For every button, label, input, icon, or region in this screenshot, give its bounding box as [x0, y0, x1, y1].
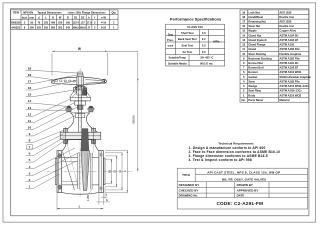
- svg-text:ASTM A216 WCB: ASTM A216 WCB: [279, 93, 301, 97]
- svg-text:19: 19: [242, 10, 245, 14]
- svg-text:190: 190: [66, 22, 71, 25]
- svg-text:4: 4: [29, 165, 31, 169]
- svg-text:10: 10: [242, 52, 245, 56]
- svg-text:TITLE: TITLE: [182, 173, 190, 177]
- svg-text:16: 16: [242, 24, 245, 28]
- svg-text:850(H): 850(H): [131, 115, 135, 123]
- dimension L (bottom): [56, 193, 58, 210]
- svg-text:Ductile Iron: Ductile Iron: [279, 15, 294, 19]
- svg-text:NPS-DN: NPS-DN: [23, 11, 33, 15]
- dimension b: [98, 193, 100, 205]
- svg-text:Stem Packing: Stem Packing: [248, 52, 266, 56]
- svg-text:n-ØW: n-ØW: [87, 194, 90, 201]
- svg-text:Stem Nut: Stem Nut: [248, 24, 260, 28]
- svg-text:490: 490: [51, 22, 56, 25]
- svg-text:Lock Nut: Lock Nut: [248, 10, 260, 14]
- svg-text:CHECKED BY: CHECKED BY: [179, 189, 199, 193]
- handwheel hub / stem nut (16): [77, 76, 84, 85]
- right end flange: [99, 151, 104, 193]
- svg-text:API CAST STEEL, NPS 8, CLASS 1: API CAST STEEL, NPS 8, CLASS 150, HW-OP: [207, 170, 280, 174]
- bonnet bolt (7) & nut (8) left: [64, 128, 68, 132]
- svg-text:Nipple: Nipple: [248, 29, 257, 33]
- svg-text:13: 13: [242, 38, 245, 42]
- svg-text:15: 15: [28, 93, 32, 97]
- svg-text:DRAWN BY: DRAWN BY: [237, 183, 253, 187]
- yoke sleeve / nipple (15): [77, 86, 84, 96]
- svg-text:n-W: n-W: [101, 15, 106, 19]
- horizontal centerline: [47, 170, 133, 172]
- stem (4): [78, 86, 80, 141]
- svg-text:152.4: 152.4: [73, 22, 80, 25]
- svg-text:L: L: [79, 204, 81, 208]
- svg-text:AISI 1035: AISI 1035: [279, 19, 291, 23]
- gasket (5): [66, 138, 95, 140]
- body (1) outline: [62, 139, 68, 151]
- svg-text:Test: Test: [168, 33, 173, 37]
- svg-text:13: 13: [28, 106, 32, 110]
- svg-text:CLASS 150: CLASS 150: [187, 25, 203, 29]
- svg-text:Seal Test: Seal Test: [181, 44, 193, 48]
- svg-text:292: 292: [44, 27, 49, 30]
- svg-text:sure: sure: [168, 44, 174, 48]
- svg-text:8: 8: [29, 139, 31, 143]
- svg-text:ASTM A194 2H: ASTM A194 2H: [279, 33, 298, 37]
- part number labels and leader lines: [26, 67, 81, 189]
- svg-text:SS304+Flexible Graphite: SS304+Flexible Graphite: [279, 75, 311, 79]
- svg-text:f: f: [94, 15, 95, 19]
- svg-text:269.9: 269.9: [80, 27, 87, 30]
- svg-text:CODE: C2-A291-FM: CODE: C2-A291-FM: [216, 201, 263, 206]
- stem packing (10): [77, 105, 83, 109]
- svg-text:Suitable Media: Suitable Media: [168, 61, 187, 65]
- svg-text:Pres-: Pres-: [167, 38, 174, 42]
- svg-text:D: D: [67, 15, 69, 19]
- svg-text:Bonnet: Bonnet: [248, 70, 257, 74]
- bonnet (6): [63, 113, 74, 132]
- svg-text:ASTM A182 F6a: ASTM A182 F6a: [279, 79, 300, 83]
- svg-text:Flexible Graphite: Flexible Graphite: [279, 52, 301, 56]
- yoke arms: [70, 87, 77, 98]
- svg-text:D1: D1: [74, 15, 78, 19]
- svg-text:3: 3: [29, 171, 31, 175]
- svg-text:2: 2: [29, 178, 31, 182]
- svg-text:D2: D2: [81, 15, 85, 19]
- lock nut (19) and retaining nut (17): [78, 72, 82, 74]
- svg-text:BB, RF, OS&Y, GATE VALVES: BB, RF, OS&Y, GATE VALVES: [222, 177, 266, 181]
- svg-text:5: 5: [29, 158, 31, 162]
- svg-text:15: 15: [242, 29, 245, 33]
- dimension f: [102, 187, 104, 199]
- svg-text:040325: 040325: [12, 27, 21, 30]
- gland flange (12): [70, 97, 90, 101]
- svg-text:Ductile Iron: Ductile Iron: [279, 24, 294, 28]
- svg-text:0.6: 0.6: [202, 50, 206, 54]
- svg-text:345: 345: [66, 27, 71, 30]
- svg-text:Technical Requirements: Technical Requirements: [218, 141, 254, 145]
- svg-text:352: 352: [58, 27, 63, 30]
- svg-text:f: f: [106, 193, 107, 197]
- handwheel (part 18): [52, 77, 107, 84]
- backseat bushing (9): [75, 114, 84, 118]
- svg-text:mm: mm: [29, 16, 34, 19]
- svg-text:ASTM A182 F6a: ASTM A182 F6a: [279, 56, 300, 60]
- svg-text:1: 1: [29, 184, 31, 188]
- svg-text:Shell Test: Shell Test: [181, 31, 194, 35]
- seat rings (2): [77, 153, 79, 189]
- svg-text:Gland Flange: Gland Flange: [248, 43, 266, 47]
- svg-text:ASTM A182 F6a: ASTM A182 F6a: [279, 47, 300, 51]
- svg-text:16: 16: [28, 86, 32, 90]
- svg-text:14: 14: [242, 33, 245, 37]
- svg-text:2.2: 2.2: [202, 44, 206, 48]
- svg-text:6: 6: [29, 152, 31, 156]
- gland (11): [75, 101, 86, 105]
- svg-text:Material: Material: [279, 98, 289, 102]
- bonnet bolt & nut right: [91, 128, 95, 132]
- svg-text:Copper Alloy: Copper Alloy: [279, 29, 296, 33]
- svg-text:DN0325: DN0325: [11, 22, 21, 25]
- svg-text:DESIGNED BY: DESIGNED BY: [179, 183, 200, 187]
- technical requirements notes: [189, 141, 281, 162]
- svg-text:19: 19: [28, 67, 32, 71]
- svg-text:18: 18: [242, 15, 245, 19]
- svg-text:AISI 1035: AISI 1035: [279, 10, 291, 14]
- svg-text:17: 17: [28, 80, 32, 84]
- svg-text:Typical Dimensions: Typical Dimensions: [37, 11, 62, 15]
- svg-text:Bonnet Bolt: Bonnet Bolt: [248, 66, 263, 70]
- svg-text:-class 150± Flange Dimensions: -class 150± Flange Dimensions: [67, 11, 106, 15]
- svg-text:D: D: [124, 170, 127, 172]
- svg-text:ASTM A194 2H: ASTM A194 2H: [279, 61, 298, 65]
- svg-text:Backseat Bushing: Backseat Bushing: [248, 56, 272, 60]
- svg-text:No.: No.: [242, 98, 247, 102]
- svg-text:ASTM A193 B7: ASTM A193 B7: [279, 66, 298, 70]
- svg-text:Performance Specifications: Performance Specifications: [170, 16, 221, 21]
- svg-text:W.O.G etc: W.O.G etc: [200, 61, 213, 65]
- svg-text:Gland Nut: Gland Nut: [248, 33, 261, 37]
- svg-text:Air Test: Air Test: [182, 50, 192, 54]
- svg-text:Wedge: Wedge: [248, 84, 257, 88]
- svg-text:4. Test & Inspect conform to A: 4. Test & Inspect conform to API 598: [189, 158, 252, 162]
- svg-text:ASTM A216 WCB+13Cr: ASTM A216 WCB+13Cr: [279, 84, 308, 88]
- svg-text:18: 18: [28, 73, 32, 77]
- dimension table: [11, 10, 118, 30]
- svg-text:2.2: 2.2: [202, 37, 206, 41]
- svg-text:17: 17: [242, 19, 245, 23]
- svg-text:14: 14: [28, 99, 32, 103]
- svg-text:10: 10: [28, 125, 32, 129]
- svg-text:SuitableTemp: SuitableTemp: [168, 56, 186, 60]
- svg-text:ITEM: ITEM: [13, 11, 19, 15]
- svg-text:Seat Ring: Seat Ring: [248, 89, 261, 93]
- svg-text:ASTM A216 WCB: ASTM A216 WCB: [279, 70, 301, 74]
- svg-text:3.0: 3.0: [202, 31, 206, 35]
- svg-text:17.5: 17.5: [87, 22, 92, 25]
- vertical centerline: [79, 68, 81, 197]
- svg-text:DRAWING No.: DRAWING No.: [179, 194, 199, 198]
- svg-text:ASTM A105+13Cr: ASTM A105+13Cr: [279, 89, 301, 93]
- svg-text:7: 7: [29, 145, 31, 149]
- dimension H (right vertical): [137, 51, 139, 171]
- wedge (3): [81, 151, 90, 191]
- svg-text:Stem: Stem: [248, 79, 255, 83]
- svg-text:H: H: [52, 15, 54, 19]
- svg-text:8-22: 8-22: [101, 27, 107, 30]
- gland eyebolt and nut right: [88, 106, 93, 109]
- dimension W (top): [52, 50, 138, 52]
- svg-text:HandWheel: HandWheel: [248, 15, 263, 19]
- svg-text:203: 203: [44, 22, 49, 25]
- svg-text:12: 12: [242, 43, 245, 47]
- svg-text:Body: Body: [248, 93, 255, 97]
- svg-text:Qty: Qty: [112, 11, 117, 15]
- svg-text:9: 9: [29, 132, 31, 136]
- svg-text:127: 127: [81, 22, 86, 25]
- svg-text:11: 11: [242, 47, 245, 51]
- svg-text:Back Seal Test: Back Seal Test: [178, 37, 197, 41]
- svg-text:Gland Eyebolt: Gland Eyebolt: [248, 38, 266, 42]
- flange dimension lines D, D1, D2, d: [111, 159, 113, 183]
- parts list table: [240, 10, 309, 102]
- svg-text:850: 850: [51, 27, 56, 30]
- title block: [177, 168, 307, 209]
- svg-text:200: 200: [30, 27, 35, 30]
- right raised face: [103, 158, 105, 185]
- svg-text:MPa: MPa: [213, 40, 219, 44]
- svg-text:250: 250: [58, 22, 63, 25]
- bonnet flange: [60, 132, 101, 139]
- svg-text:12: 12: [28, 112, 32, 116]
- svg-text:Inch: Inch: [22, 15, 28, 19]
- svg-text:Gland: Gland: [248, 47, 256, 51]
- svg-text:4-19: 4-19: [101, 22, 107, 25]
- left end flange: [57, 151, 62, 193]
- svg-text:Retaining Nut: Retaining Nut: [248, 19, 266, 23]
- svg-text:ASTM A105: ASTM A105: [279, 43, 294, 47]
- left raised face: [55, 158, 57, 185]
- svg-text:Bonnet Nut: Bonnet Nut: [248, 61, 263, 65]
- svg-text:DATE: DATE: [237, 194, 245, 198]
- svg-text:203: 203: [37, 27, 42, 30]
- body cavity walls: [63, 152, 75, 191]
- svg-text:11: 11: [28, 119, 32, 123]
- svg-text:Parts Name: Parts Name: [248, 98, 263, 102]
- svg-text:298.5: 298.5: [73, 27, 80, 30]
- gland eyebolt (13) and gland nut (14) left: [66, 106, 71, 109]
- svg-text:ASTM A193 B7: ASTM A193 B7: [279, 38, 298, 42]
- svg-text:Gasket: Gasket: [248, 75, 257, 79]
- svg-text:APPROVED BY: APPROVED BY: [237, 189, 259, 193]
- svg-text:-29~425 °C: -29~425 °C: [200, 56, 214, 60]
